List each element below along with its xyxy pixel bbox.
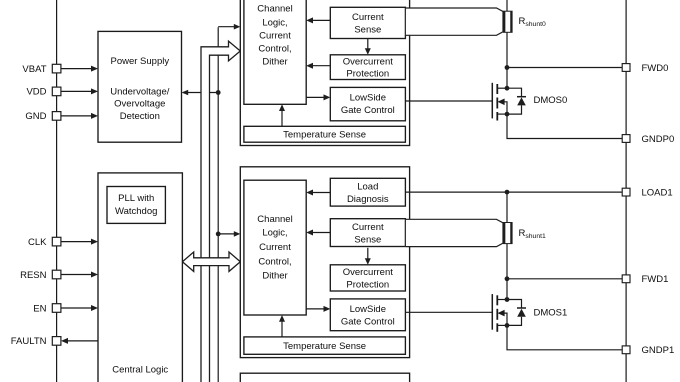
svg-text:Logic,: Logic, — [262, 227, 287, 238]
svg-text:Diagnosis: Diagnosis — [347, 194, 389, 205]
svg-text:EN: EN — [33, 303, 46, 314]
svg-text:FWD1: FWD1 — [642, 274, 669, 285]
svg-text:GND: GND — [25, 111, 46, 122]
svg-text:Overvoltage: Overvoltage — [114, 99, 165, 110]
svg-text:Channel: Channel — [257, 214, 292, 225]
svg-text:Undervoltage/: Undervoltage/ — [110, 87, 170, 98]
svg-text:Control,: Control, — [258, 257, 291, 268]
svg-text:Temperature Sense: Temperature Sense — [283, 341, 366, 352]
svg-text:LOAD1: LOAD1 — [642, 187, 673, 198]
svg-text:Current: Current — [259, 242, 291, 253]
svg-text:Watchdog: Watchdog — [115, 206, 157, 217]
svg-text:RESN: RESN — [20, 270, 47, 281]
svg-text:DMOS1: DMOS1 — [534, 307, 568, 318]
svg-text:Overcurrent: Overcurrent — [343, 57, 394, 68]
svg-text:Power Supply: Power Supply — [110, 56, 169, 67]
svg-text:Current: Current — [352, 222, 384, 233]
svg-text:VBAT: VBAT — [22, 64, 46, 75]
svg-text:Central Logic: Central Logic — [112, 365, 168, 376]
svg-text:Detection: Detection — [120, 111, 160, 122]
svg-text:Current: Current — [352, 12, 384, 23]
svg-text:Sense: Sense — [354, 25, 381, 36]
svg-text:Logic,: Logic, — [262, 17, 287, 28]
svg-text:Protection: Protection — [346, 280, 389, 291]
svg-text:GNDP1: GNDP1 — [642, 345, 675, 356]
svg-text:FAULTN: FAULTN — [11, 336, 47, 347]
svg-text:Gate Control: Gate Control — [341, 105, 395, 116]
svg-text:PLL with: PLL with — [118, 193, 154, 204]
svg-text:Load: Load — [357, 182, 378, 193]
svg-text:Temperature Sense: Temperature Sense — [283, 130, 366, 141]
svg-text:CLK: CLK — [28, 237, 47, 248]
svg-text:Dither: Dither — [262, 56, 287, 67]
svg-text:LowSide: LowSide — [350, 304, 386, 315]
svg-text:Protection: Protection — [346, 69, 389, 80]
svg-text:FWD0: FWD0 — [642, 63, 669, 74]
svg-text:GNDP0: GNDP0 — [642, 134, 675, 145]
svg-text:LowSide: LowSide — [350, 92, 386, 103]
svg-text:Dither: Dither — [262, 270, 287, 281]
svg-text:Overcurrent: Overcurrent — [343, 267, 394, 278]
svg-text:Current: Current — [259, 31, 291, 42]
svg-text:DMOS0: DMOS0 — [534, 95, 568, 106]
svg-text:Sense: Sense — [354, 234, 381, 245]
svg-text:Channel: Channel — [257, 4, 292, 15]
svg-text:Gate Control: Gate Control — [341, 317, 395, 328]
svg-text:Control,: Control, — [258, 44, 291, 55]
svg-text:VDD: VDD — [26, 87, 46, 98]
